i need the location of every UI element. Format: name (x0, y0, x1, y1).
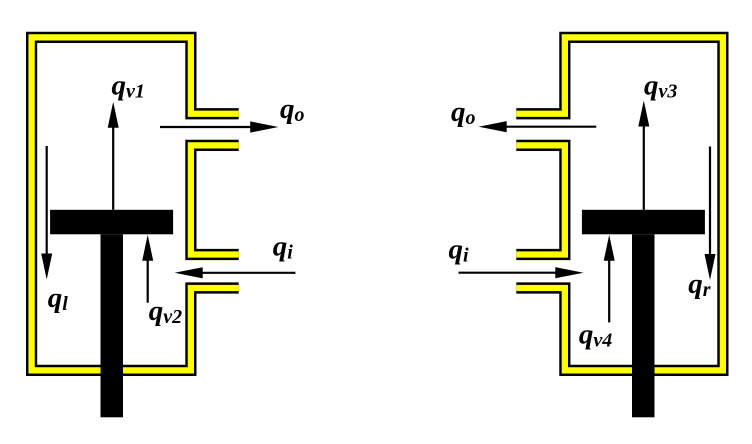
left cylinder middle bracket between ports (191, 145, 239, 254)
right piston head (582, 210, 705, 235)
svg-text:qv4: qv4 (579, 319, 612, 352)
arrow q_v4 (604, 235, 615, 323)
svg-text:ql: ql (48, 282, 69, 315)
left piston rod (101, 234, 124, 417)
arrow q_i left figure (175, 267, 296, 278)
svg-text:qi: qi (449, 234, 470, 267)
left cylinder wall (outer shell with two ports) (32, 37, 239, 370)
left piston head (50, 210, 173, 235)
arrow q_v2 (142, 235, 153, 303)
arrow q_v1 (108, 102, 119, 210)
svg-text:qo: qo (280, 93, 305, 126)
right piston rod (632, 234, 655, 417)
arrow q_l (41, 146, 52, 280)
arrow q_r (705, 147, 716, 281)
svg-text:qv3: qv3 (644, 70, 677, 103)
right cylinder middle bracket between ports (516, 145, 565, 254)
arrow q_i right figure (459, 267, 584, 278)
svg-text:qv1: qv1 (112, 70, 145, 103)
svg-text:qv2: qv2 (149, 295, 182, 328)
arrow q_o left figure (160, 121, 278, 132)
right cylinder wall (outer shell with two ports) (516, 37, 723, 370)
svg-text:qi: qi (273, 231, 294, 264)
svg-text:qr: qr (688, 268, 711, 301)
arrow q_v3 (638, 101, 649, 210)
svg-text:qo: qo (451, 96, 476, 129)
arrow q_o right figure (479, 121, 597, 132)
